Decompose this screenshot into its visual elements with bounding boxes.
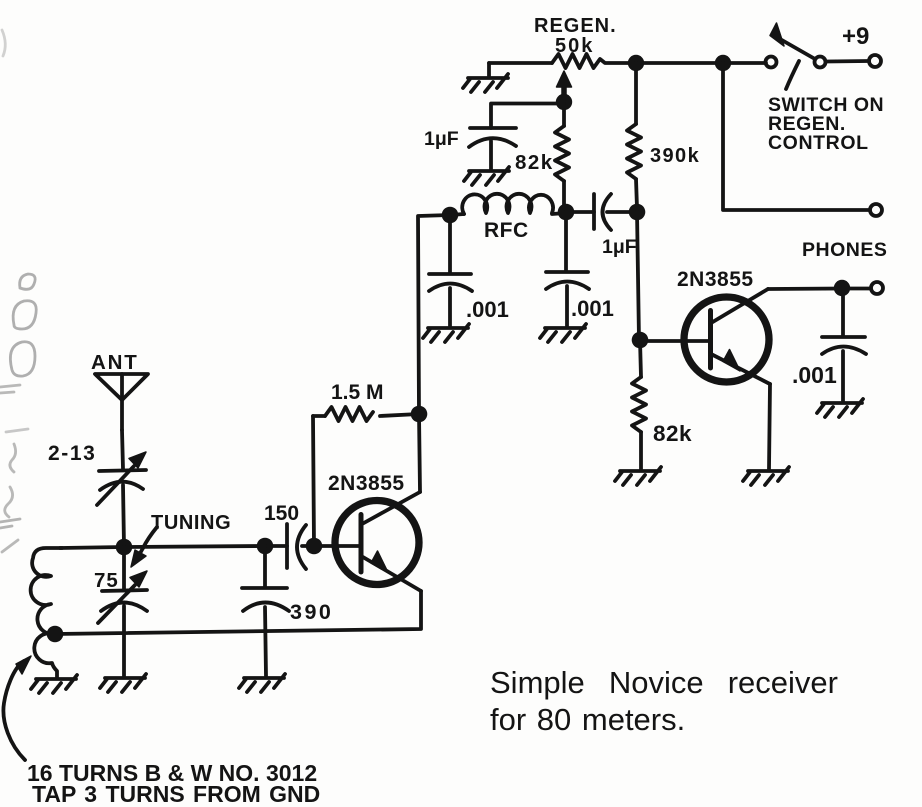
capacitor 150 coupling (264, 502, 314, 569)
wire wiper to capacitor 1uF (491, 104, 564, 129)
leader to switch (786, 61, 799, 89)
wire Q1 emitter to bottom rail (55, 591, 421, 634)
antenna ANT (91, 351, 148, 430)
capacitor 390 (242, 546, 333, 676)
ground (phones cap) (817, 399, 863, 417)
transistor Q2 2N3855 (677, 268, 770, 384)
svg-text:for 80 meters.: for 80 meters. (490, 702, 685, 737)
node pot output (628, 55, 644, 71)
variable capacitor 2-13 (48, 430, 146, 546)
wire 1.5M left down to base (313, 416, 314, 546)
label switch on regen control (768, 94, 884, 154)
ground (390 cap) (239, 674, 285, 692)
svg-text:.001: .001 (466, 297, 509, 322)
svg-text:.001: .001 (792, 362, 837, 388)
wire Q2 emitter down (769, 384, 770, 469)
variable capacitor 75 (94, 547, 147, 676)
svg-text:390: 390 (290, 600, 333, 624)
wire to Q1 base (314, 544, 360, 548)
svg-text:2N3855: 2N3855 (677, 268, 754, 291)
svg-text:1μF: 1μF (424, 128, 459, 150)
wire pot to switch (636, 61, 766, 65)
wire pot left to ground (487, 63, 491, 76)
svg-text:150: 150 (264, 502, 299, 525)
svg-text:1μF: 1μF (602, 236, 637, 258)
ground (right .001) (540, 324, 586, 342)
inductor L1 tank coil (31, 548, 62, 677)
capacitor .001 (phones) (792, 288, 866, 401)
resistor 82k (Q2 bias) (632, 340, 692, 469)
inductor RFC (450, 194, 566, 242)
node Q1 base junction (306, 538, 323, 555)
svg-text:2-13: 2-13 (48, 442, 96, 465)
node coupling out (629, 204, 646, 221)
ground (left .001) (423, 324, 469, 342)
svg-text:390k: 390k (650, 145, 700, 167)
capacitor .001 (left bypass) (429, 215, 509, 326)
ground (Q2 emitter) (743, 467, 789, 485)
wire RFC left down to Q1 collector (418, 215, 450, 492)
svg-text:75: 75 (94, 569, 119, 592)
ground (below 1uF) (464, 167, 509, 185)
wire down to Q2 base (637, 212, 639, 340)
node RFC left (442, 207, 459, 224)
annotation arrow to coil tap (3, 656, 31, 760)
svg-text:TAP 3 TURNS FROM GND: TAP 3 TURNS FROM GND (32, 781, 320, 807)
wire to Q2 base (640, 339, 709, 343)
terminal phones top (870, 204, 882, 216)
svg-text:82k: 82k (515, 151, 554, 174)
node wiper junction (556, 94, 572, 110)
node RFC right / 82k bottom (558, 204, 575, 221)
label TUNING with leader (131, 512, 231, 567)
svg-text:50k: 50k (555, 35, 594, 57)
caption (490, 665, 838, 737)
resistor 1.5M (313, 381, 419, 421)
svg-text:RFC: RFC (484, 219, 529, 242)
transistor Q1 2N3855 (328, 472, 421, 591)
ground (pot left) (463, 74, 508, 92)
wire Q2 collector to phones (768, 287, 842, 291)
svg-text:+9: +9 (842, 23, 869, 50)
node tank to 150 (257, 538, 274, 555)
capacitor .001 (right bypass) (546, 212, 614, 326)
node 1.5M right (411, 406, 428, 423)
node coil tap (47, 626, 64, 643)
node switch feed (715, 55, 731, 71)
wiper arrow of 50k (557, 71, 572, 101)
node Q2 base junction (632, 332, 649, 349)
label coil winding note (27, 760, 320, 807)
resistor 82k (regen divider) (515, 102, 569, 211)
resistor 390k (627, 63, 700, 208)
svg-text:ANT: ANT (91, 351, 139, 374)
svg-text:PHONES: PHONES (802, 239, 887, 261)
node phones junction (834, 280, 850, 296)
svg-text:TUNING: TUNING (151, 512, 231, 534)
wire to phones jack top (723, 63, 869, 210)
wire tuning rail (60, 546, 265, 548)
potentiometer 50k REGEN (489, 15, 636, 68)
svg-text:REGEN.: REGEN. (534, 15, 617, 37)
capacitor 1uF coupling (566, 194, 637, 258)
capacitor C bypass 1uF (424, 128, 516, 169)
svg-text:.001: .001 (571, 296, 614, 321)
ground (coil) (31, 675, 77, 693)
terminal phones bottom (842, 282, 883, 294)
ground (82k Q2) (615, 467, 661, 485)
node tank top (116, 539, 133, 556)
svg-text:2N3855: 2N3855 (328, 472, 405, 495)
svg-text:82k: 82k (653, 421, 692, 446)
ground (75 cap) (100, 674, 146, 692)
switch on regen control (766, 23, 882, 68)
svg-text:1.5 M: 1.5 M (331, 381, 384, 404)
svg-text:Simple Novice receiver: Simple Novice receiver (490, 665, 838, 700)
svg-text:CONTROL: CONTROL (768, 132, 869, 154)
